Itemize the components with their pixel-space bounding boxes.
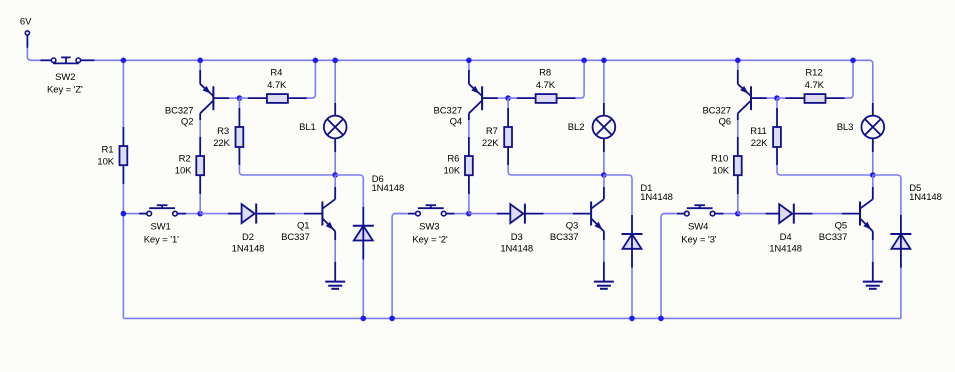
svg-text:1N4148: 1N4148 — [500, 244, 533, 255]
svg-text:D4: D4 — [780, 232, 792, 243]
svg-text:Q5: Q5 — [835, 220, 847, 231]
svg-text:22K: 22K — [213, 138, 230, 149]
svg-text:BC337: BC337 — [819, 232, 848, 243]
svg-text:R3: R3 — [217, 126, 229, 137]
svg-text:R8: R8 — [539, 67, 551, 78]
svg-text:Q3: Q3 — [566, 220, 578, 231]
svg-text:Key = '1': Key = '1' — [144, 235, 179, 246]
svg-text:4.7K: 4.7K — [267, 80, 287, 91]
svg-text:SW4: SW4 — [688, 221, 708, 232]
svg-text:Q1: Q1 — [297, 220, 309, 231]
svg-text:22K: 22K — [751, 138, 768, 149]
svg-text:1N4148: 1N4148 — [640, 192, 673, 203]
svg-text:6V: 6V — [20, 17, 32, 28]
svg-text:SW1: SW1 — [150, 221, 170, 232]
svg-text:BC337: BC337 — [550, 232, 579, 243]
svg-text:R11: R11 — [750, 126, 766, 137]
svg-text:22K: 22K — [482, 138, 499, 149]
svg-text:BL3: BL3 — [837, 122, 854, 133]
svg-text:BC327: BC327 — [165, 106, 194, 117]
svg-text:Key = '3': Key = '3' — [681, 235, 716, 246]
svg-text:D2: D2 — [242, 232, 254, 243]
svg-text:10K: 10K — [712, 165, 729, 176]
svg-text:BC337: BC337 — [281, 232, 310, 243]
svg-text:D3: D3 — [511, 232, 523, 243]
svg-text:R6: R6 — [447, 153, 459, 164]
svg-text:1N4148: 1N4148 — [232, 244, 265, 255]
svg-text:R4: R4 — [270, 67, 282, 78]
svg-text:10K: 10K — [97, 157, 114, 168]
svg-text:SW3: SW3 — [419, 221, 439, 232]
svg-text:BL1: BL1 — [299, 122, 316, 133]
svg-text:1N4148: 1N4148 — [372, 183, 405, 194]
svg-text:4.7K: 4.7K — [805, 80, 825, 91]
svg-text:Q4: Q4 — [450, 117, 462, 128]
svg-text:1N4148: 1N4148 — [909, 192, 942, 203]
svg-text:10K: 10K — [175, 165, 192, 176]
svg-text:SW2: SW2 — [55, 72, 75, 83]
svg-text:R10: R10 — [711, 153, 728, 164]
svg-text:Key = 'Z': Key = 'Z' — [47, 84, 83, 95]
svg-text:R1: R1 — [101, 145, 113, 156]
svg-text:BL2: BL2 — [568, 122, 585, 133]
svg-text:10K: 10K — [443, 165, 460, 176]
svg-text:Key = '2': Key = '2' — [412, 235, 447, 246]
svg-text:Q2: Q2 — [181, 117, 193, 128]
svg-text:4.7K: 4.7K — [536, 80, 556, 91]
svg-text:Q6: Q6 — [719, 117, 731, 128]
svg-text:R12: R12 — [805, 67, 822, 78]
svg-text:BC327: BC327 — [702, 106, 731, 117]
svg-text:1N4148: 1N4148 — [769, 244, 802, 255]
svg-text:R2: R2 — [179, 153, 191, 164]
svg-text:BC327: BC327 — [434, 106, 463, 117]
svg-text:R7: R7 — [486, 126, 498, 137]
